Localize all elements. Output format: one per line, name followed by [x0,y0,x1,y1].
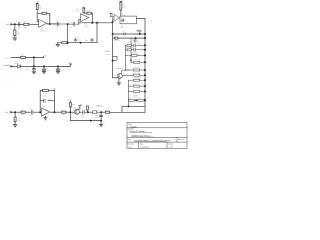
wire treble to bass [110,111,145,113]
resistor R5 feedback [42,11,52,24]
svg-text:SPK: SPK [121,24,124,27]
node aux [33,56,35,58]
svg-text:R10: R10 [62,44,65,47]
ladder feeder A [125,45,128,70]
capacitor C10 [30,108,41,117]
resistor R29 shunt [86,106,91,112]
wire mid rail 36 [113,22,145,78]
svg-text:R2: R2 [24,21,26,24]
node chain x128 [127,111,129,113]
power flag +V U2 [108,11,112,14]
resistor R11 [114,31,126,42]
svg-text:1uF: 1uF [70,26,73,29]
power flag +V aux [44,54,47,58]
capacitor C9 [56,66,64,73]
transistor Q1 [113,71,126,79]
ground G2 [56,43,60,47]
resistor R23 [21,53,26,61]
resistor row 7 [128,77,146,81]
wire aux drop [33,57,35,66]
svg-text:R26: R26 [43,93,46,96]
svg-text:1: 1 [47,21,48,23]
svg-text:3: 3 [37,18,38,20]
svg-text:ALM10S: ALM10S [116,67,124,70]
wire input2 [13,111,21,113]
svg-text:File: File [128,138,131,141]
node A2 [14,111,16,113]
svg-text:DocumentDrawnBy — Replicated (: DocumentDrawnBy — Replicated (All) compu… [134,139,171,142]
svg-text:POWER: POWER [4,64,11,67]
svg-text:C12: C12 [81,114,84,117]
resistor R2 [24,21,39,30]
svg-text:C1: C1 [17,20,19,23]
power flag +V main [68,61,71,66]
node power x44 [43,65,45,67]
node mid5 [69,111,71,113]
svg-text:4.7K: 4.7K [129,102,132,104]
node bass rail [127,105,129,107]
wire power rail [13,65,71,67]
svg-text:IN1: IN1 [6,23,9,26]
capacitor C5 [85,37,94,42]
node rail x67 [67,42,69,44]
resistor R28 pullup [68,98,75,112]
svg-text:C11: C11 [48,98,51,101]
op-amp U2 [113,15,120,22]
svg-text:+: + [81,16,82,18]
node gnd tie [139,33,141,35]
resistor R26 feedback [42,89,54,97]
wire stage1 out [47,23,58,25]
wire Q1 to row6 [122,74,133,76]
node power x34 [33,65,35,67]
node mid6 [87,111,89,113]
port J3 input 2 [5,111,13,114]
svg-text:4.7K: 4.7K [138,102,141,104]
wire aux rail [11,56,44,58]
svg-text:47K: 47K [17,32,21,35]
bass loop left [127,80,129,106]
port J1 input 1 [6,23,13,26]
capacitor C4 [74,37,81,43]
node treble [100,111,102,113]
svg-text:U1A: U1A [40,28,44,31]
port J2 POWER [4,64,13,67]
svg-text:2: 2 [37,26,38,28]
title block text [128,123,185,149]
resistor R3 [36,4,42,14]
node out2 [91,22,93,24]
svg-text:47K: 47K [39,6,43,9]
svg-text:TREBLE: TREBLE [96,104,104,107]
wire U5 out [50,111,62,113]
capacitor C2 [54,19,68,29]
svg-text:+V: +V [44,54,47,57]
svg-text:100K: 100K [47,14,52,17]
svg-text:R9: R9 [123,3,125,6]
capacitor C12 [79,110,88,118]
resistor R8 feedback [87,9,92,22]
svg-text:R21: R21 [129,97,132,99]
resistor RB1 [128,83,146,87]
capacitor C3 [68,21,79,29]
svg-text:Chuck E Cheese: Chuck E Cheese [130,130,146,133]
op-amp U1B [81,14,89,28]
capacitor C13 [95,112,103,120]
svg-text:R23: R23 [21,53,24,56]
svg-text:R13 C15: R13 C15 [127,47,133,49]
wire return [70,112,101,120]
resistor row 3 [125,53,146,57]
resistor R30 series [105,108,111,113]
svg-text:+12V: +12V [4,56,9,59]
svg-text:CONN: CONN [105,53,109,56]
resistor row 6 [122,72,146,76]
resistor row 5 [125,67,146,71]
resistor R1 [14,24,21,35]
svg-text:R28: R28 [72,103,75,106]
svg-text:1uF: 1uF [56,26,59,29]
node power x58 [57,65,59,67]
node fb left [39,111,41,113]
node A1 [14,23,16,25]
resistor R9 [120,1,127,16]
resistor R25 series [21,108,31,116]
svg-text:1.0a: 1.0a [128,146,131,149]
svg-text:C13: C13 [95,114,98,117]
svg-text:C14: C14 [102,122,105,125]
node U2 in [112,21,114,23]
wire input1 [13,23,24,25]
resistor R27 series [62,108,75,116]
svg-text:R24: R24 [18,117,21,120]
svg-text:2-Aug-2001: 2-Aug-2001 [140,146,149,149]
op-amp U1A [37,18,48,33]
svg-text:1: 1 [113,52,114,54]
wire bias node [37,13,42,21]
node rail riser top [96,22,98,24]
wire stage2 out [79,22,113,24]
svg-text:BASS: BASS [134,95,139,98]
svg-text:R29: R29 [89,106,92,109]
svg-text:Amplifier: Amplifier [130,125,138,128]
net label +V Q2 [79,103,83,106]
pot wiper [88,111,105,114]
resistor RC row 2 [125,47,146,52]
resistor R24b [14,112,21,122]
resistor R6 [77,8,87,13]
svg-text:Q2: Q2 [73,107,75,110]
node out1 [49,23,51,25]
node return [90,120,92,122]
node bus 36 [144,37,146,39]
capacitor C11 feedback [44,98,52,103]
svg-text:R30 4.7K: R30 4.7K [105,108,111,111]
svg-text:R22: R22 [138,97,141,99]
ground G3 [117,78,121,85]
diode D1 [14,60,21,68]
node bus 33 [144,33,146,35]
ground rail y42.7 [58,42,97,44]
connector loop [112,52,117,62]
transistor Q2 [73,106,80,115]
title block [127,122,187,148]
svg-text:R14 10K: R14 10K [132,53,138,55]
feedback loop U5 [40,90,54,112]
op-amp U5 [39,105,50,116]
svg-text:C4: C4 [78,37,80,40]
svg-text:R19: R19 [134,83,137,85]
svg-text:R16 10K: R16 10K [134,67,140,69]
svg-text:10K: 10K [24,26,28,29]
resistor R31 bias U2 [110,14,112,17]
svg-text:R18 10K: R18 10K [134,77,140,79]
wire U3 out to bus [137,19,146,113]
svg-text:IN2: IN2 [5,111,8,114]
svg-text:C3: C3 [70,21,72,24]
resistor R10 [62,42,68,48]
resistor row 4 [131,59,146,63]
capacitor C7 [26,66,36,73]
node out5 [54,111,56,113]
svg-text:C8: C8 [46,67,48,70]
resistor RC row 1 [125,42,146,47]
power flag +V stage2 [82,5,85,8]
power flag +V stage1 [36,1,39,4]
wire bass rail [122,106,145,112]
wire rail riser [96,23,98,43]
svg-text:R8: R8 [87,9,89,12]
capacitor C6 [134,38,142,45]
svg-text:GND: GND [137,30,142,33]
capacitor C1 [16,20,24,30]
ladder feeder B [130,38,132,62]
svg-text:C5: C5 [85,37,87,40]
svg-text:1 of 1: 1 of 1 [169,146,173,149]
audio module U3 [120,12,137,30]
svg-text:C10: C10 [30,108,33,111]
svg-text:R27: R27 [62,108,65,111]
svg-text:C2: C2 [57,19,59,22]
svg-text:+: + [39,21,40,23]
wire stage2 in jog [78,18,89,25]
ground G7 arrow [100,121,105,127]
resistor RB3 RB4 pair [128,97,146,104]
ground G6 [42,116,47,120]
capacitor C8 [42,66,50,73]
svg-text:+12V: +12V [52,88,57,91]
svg-text:R25: R25 [21,108,24,111]
svg-text:Satellite Engineering: Satellite Engineering [131,135,149,138]
svg-text:R12 C14: R12 C14 [127,42,133,44]
svg-text:+: + [42,116,43,118]
node loop top [67,23,69,25]
wire loop drop [67,24,69,43]
ground G5 arrow [14,122,17,127]
node return end [100,120,102,122]
svg-text:C9: C9 [60,67,62,70]
node rail x80 [80,42,82,44]
svg-text:R15 10K: R15 10K [134,59,140,61]
node mid rail [135,37,137,39]
ground GND1 [13,36,17,41]
svg-text:R11 10K: R11 10K [114,39,120,42]
resistor RB2 [128,90,146,95]
svg-text:R32: R32 [123,31,126,34]
svg-text:D1: D1 [15,60,17,63]
svg-text:U5A: U5A [43,105,46,108]
svg-text:2: 2 [39,107,40,109]
wire gnd tie [113,32,145,34]
svg-text:SPKR1: SPKR1 [105,50,111,53]
svg-text:R17 10K: R17 10K [134,72,140,74]
svg-text:10uF: 10uF [16,26,20,29]
svg-text:R6: R6 [77,8,79,11]
svg-text:C6: C6 [137,40,139,43]
